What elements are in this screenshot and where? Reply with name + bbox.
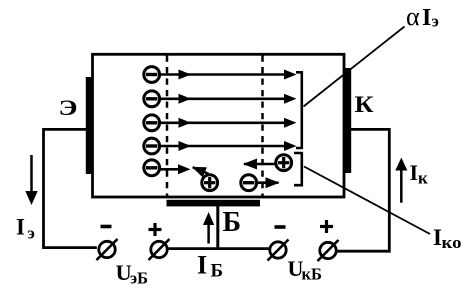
electron symbol e3: [144, 115, 160, 131]
electron symbol e5: [144, 160, 160, 176]
emitter junction dashed line: [166, 56, 169, 197]
svg-text:I: I: [422, 5, 431, 31]
svg-text:Б: Б: [223, 207, 242, 238]
electron short arrow row5: [161, 168, 181, 171]
collector junction dashed line: [261, 56, 264, 197]
current arrow Iк: [400, 169, 403, 203]
hole arrow h2: [244, 163, 275, 166]
terminal Ø (emitter, -): [99, 241, 115, 257]
svg-text:α: α: [406, 2, 420, 31]
electron flow arrow row4: [161, 145, 288, 148]
svg-text:эБ: эБ: [130, 269, 148, 288]
polarity - (emitter): [101, 225, 112, 229]
emitter contact bar: [86, 77, 93, 174]
electron symbol e6 (Iко): [241, 175, 257, 191]
semiconductor body rectangle: [93, 54, 345, 197]
hole symbol h1 (recombination): [202, 175, 218, 191]
electron flow arrow row2: [161, 98, 288, 101]
polarity + (base left): [149, 228, 162, 231]
collector lead wire: [337, 129, 390, 251]
electron symbol e1: [144, 67, 160, 83]
leader line to Iко: [304, 167, 430, 235]
svg-text:Б: Б: [211, 261, 224, 282]
svg-text:I: I: [197, 251, 207, 280]
current arrow Iэ: [30, 155, 33, 192]
electron flow arrow row3: [161, 122, 288, 125]
svg-text:ко: ко: [442, 233, 462, 252]
polarity + (collector): [320, 225, 333, 228]
base contact bar: [167, 200, 261, 207]
svg-text:кБ: кБ: [302, 265, 323, 284]
terminal Ø (base left, +): [151, 241, 167, 257]
base lead wire: [216, 206, 219, 250]
svg-text:к: к: [418, 169, 428, 188]
svg-text:I: I: [16, 215, 25, 240]
emitter lead wire: [44, 129, 97, 247]
svg-text:К: К: [355, 92, 374, 117]
current arrow IБ: [207, 224, 210, 244]
electron symbol e4: [144, 138, 160, 154]
polarity - (base right): [275, 225, 286, 229]
leader line to alpha-Iэ: [304, 27, 405, 107]
terminal Ø (collector, +): [320, 242, 336, 258]
bracket for alpha-Iэ group: [296, 72, 302, 148]
collector contact bar: [344, 68, 351, 173]
electron arrow e6: [258, 181, 279, 184]
svg-text:Э: Э: [59, 95, 78, 120]
base bottom wire: [167, 247, 270, 250]
hole arrow h1: [193, 167, 209, 174]
terminal Ø (base right, -): [270, 242, 286, 258]
hole symbol h2 (collector junction): [276, 155, 292, 171]
svg-text:I: I: [410, 160, 419, 185]
electron symbol e2: [144, 91, 160, 107]
svg-text:э: э: [432, 12, 439, 31]
electron flow arrow row1: [161, 73, 288, 76]
bracket for Iко group: [294, 153, 302, 185]
svg-text:э: э: [28, 224, 35, 243]
